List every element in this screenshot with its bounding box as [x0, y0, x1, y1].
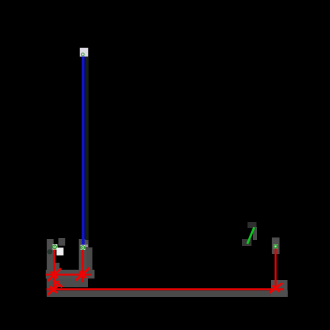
- pin stub green diagonal: [247, 227, 254, 244]
- junction X3b: [53, 280, 62, 287]
- selection block above green pin: [248, 222, 257, 228]
- lavender patch: [85, 245, 88, 248]
- node halo mid: [81, 245, 86, 250]
- node halo left: [53, 244, 58, 249]
- component symbol box lower: [57, 248, 64, 256]
- wire H1: [46, 274, 91, 276]
- selection block right corner: [271, 280, 288, 297]
- net bus (blue vertical): [82, 56, 85, 245]
- dark ring mark: [47, 249, 52, 254]
- dark green shadow net: [85, 57, 88, 240]
- junction X4: [269, 283, 282, 293]
- node pin left: [53, 245, 57, 249]
- node pin right: [274, 244, 278, 248]
- junction X2: [76, 268, 90, 281]
- node pin mid: [81, 246, 85, 250]
- wire V3: [275, 249, 277, 290]
- wire V1: [53, 249, 55, 290]
- selection band A: [46, 270, 95, 279]
- selection block beside green pin: [253, 227, 257, 240]
- wire H2: [47, 288, 284, 290]
- selection strip at right pin: [272, 238, 280, 255]
- wire V2: [82, 250, 84, 282]
- selection wing right: [87, 247, 93, 276]
- node pin top (in box): [81, 53, 84, 56]
- selection band B: [47, 279, 88, 288]
- junction X1: [48, 268, 61, 281]
- selection block under white box: [54, 263, 59, 270]
- selection box left vertical bar: [47, 239, 54, 296]
- junction X3: [48, 285, 59, 295]
- selection box small top block: [58, 238, 65, 246]
- bottom selection band under bus wire: [47, 290, 288, 297]
- selection block below green pin: [242, 239, 252, 246]
- selection strip right of left wire: [79, 239, 89, 276]
- component symbol box top: [80, 48, 88, 57]
